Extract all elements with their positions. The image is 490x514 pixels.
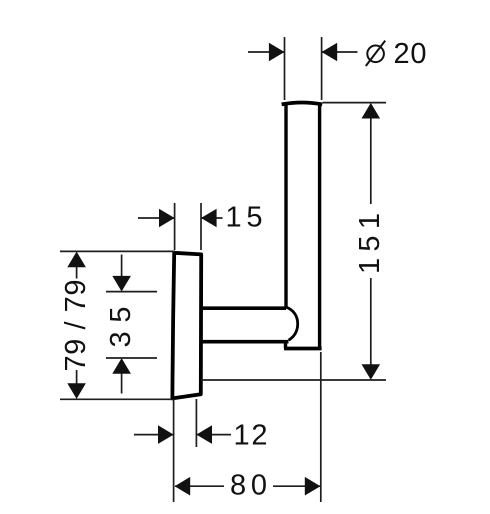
dia20 extension line right	[321, 37, 323, 100]
79/79 dimension line upper	[76, 266, 78, 279]
35 dimension tail above	[121, 255, 123, 278]
wall plate (escutcheon, side view)	[172, 253, 201, 399]
151 extension line top	[323, 102, 387, 104]
post right edge	[318, 104, 321, 349]
12 dimension line right tail	[197, 434, 231, 436]
dia20 dimension line left tail	[248, 51, 284, 53]
post bottom cap	[284, 347, 322, 351]
dia20 dimension line right tail	[322, 51, 358, 53]
15 arrow right-pointing-left	[201, 209, 217, 228]
15 dimension line left tail	[138, 217, 174, 219]
arm top line	[201, 306, 287, 310]
diameter symbol	[366, 41, 385, 66]
79/79 extension line top	[60, 250, 175, 252]
svg-text:12: 12	[234, 420, 268, 452]
80 dimension line right segment	[273, 485, 320, 487]
svg-text:79 / 79: 79 / 79	[60, 280, 92, 372]
35 dimension tail below	[121, 373, 123, 394]
80 dimension line left segment	[175, 485, 224, 487]
35 extension line bottom	[106, 357, 157, 359]
12 extension line left (shared with 80)	[173, 399, 175, 502]
80 extension line right	[320, 352, 322, 502]
15 extension line right	[200, 203, 202, 250]
post left edge upper	[284, 104, 287, 309]
svg-text:20: 20	[394, 38, 427, 70]
arm rounded end (dome at post joint)	[286, 307, 298, 340]
151 extension line bottom	[201, 379, 386, 381]
15 extension line left	[174, 203, 176, 250]
35 arrow pointing down	[112, 276, 131, 292]
15 dimension line right tail	[201, 217, 222, 219]
80 arrow pointing right	[305, 477, 321, 496]
svg-text:151: 151	[354, 213, 386, 274]
post top cap	[282, 103, 323, 105]
80 arrow pointing left	[175, 477, 191, 496]
151 arrow up	[362, 103, 381, 119]
79/79 arrow up	[67, 252, 86, 268]
151 dimension line upper	[370, 117, 372, 204]
79/79 dimension line lower	[76, 370, 78, 384]
151 arrow down	[362, 364, 381, 380]
12 extension line right	[195, 399, 197, 447]
35 arrow pointing up	[112, 358, 131, 374]
151 dimension line lower	[370, 278, 372, 366]
35 extension line top	[106, 291, 157, 293]
79/79 extension line bottom	[60, 398, 172, 400]
79/79 arrow down	[67, 383, 86, 399]
post left edge lower	[284, 341, 287, 349]
12 arrow pointing left	[196, 425, 212, 444]
dia20 arrow right	[322, 43, 338, 62]
arm bottom line	[201, 340, 289, 344]
dia20 extension line left	[284, 37, 286, 100]
dia20 arrow left	[269, 43, 285, 62]
12 arrow pointing right	[158, 425, 174, 444]
15 arrow left-pointing-right	[159, 209, 175, 228]
12 dimension line left tail	[134, 434, 173, 436]
